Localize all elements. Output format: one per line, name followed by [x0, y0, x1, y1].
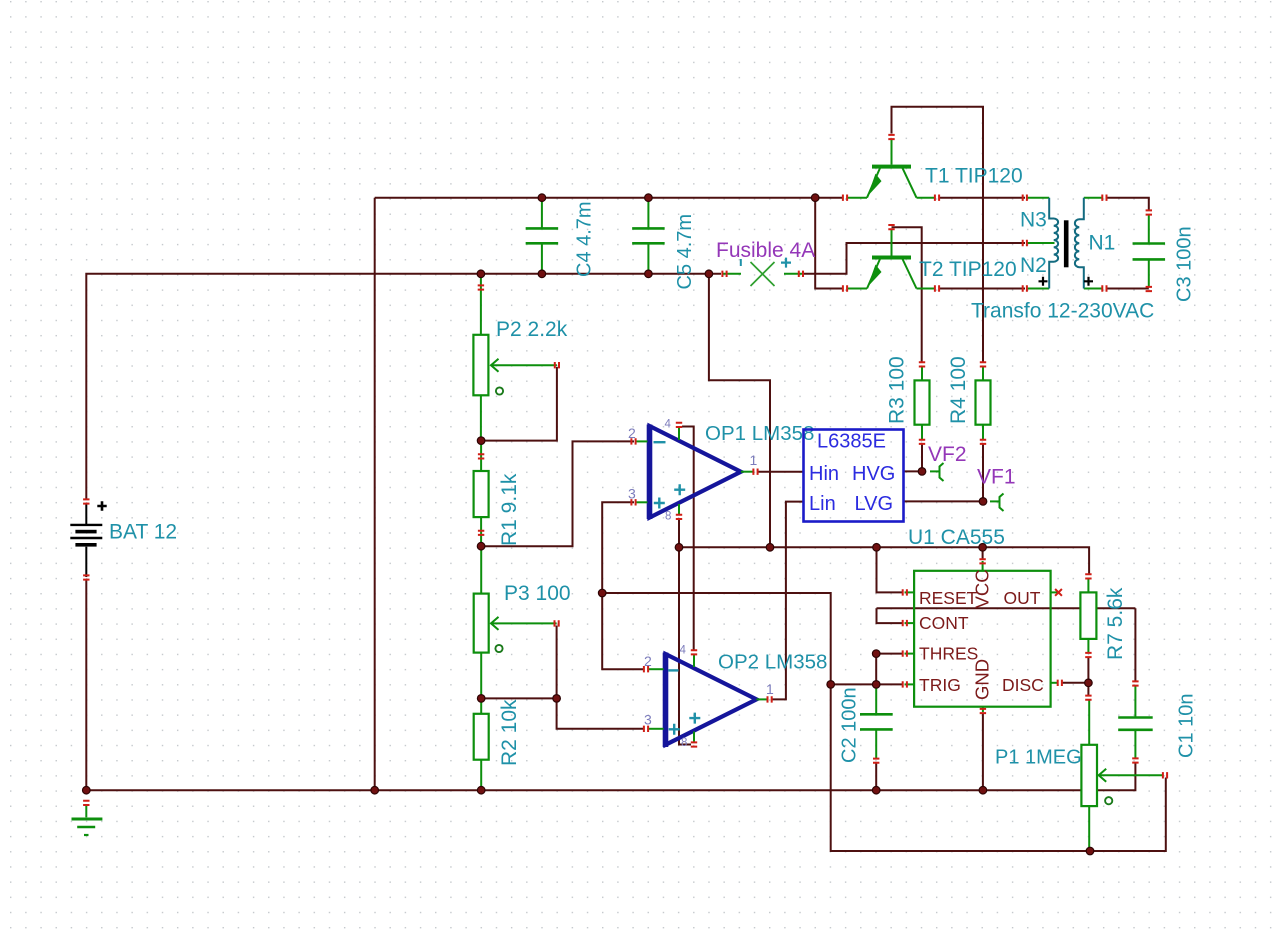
capacitor C4 [541, 199, 543, 228]
wire [557, 698, 643, 728]
svg-text:L6385E: L6385E [817, 431, 886, 453]
wire [86, 274, 721, 499]
wire [815, 198, 843, 289]
svg-text:P2 2.2k: P2 2.2k [496, 318, 568, 341]
wire [375, 197, 843, 199]
pin RESET [903, 589, 907, 595]
capacitor C3 [1148, 215, 1150, 244]
svg-text:OP1 LM358: OP1 LM358 [705, 422, 814, 445]
svg-text:1: 1 [750, 452, 758, 468]
wire [556, 626, 558, 699]
wire [602, 593, 831, 684]
pin N3 top [1023, 195, 1027, 201]
wire [982, 713, 984, 790]
node DISC/R7/P1 [1085, 679, 1093, 687]
svg-text:3: 3 [644, 712, 652, 728]
wire [892, 107, 984, 362]
pin OP2 2 [644, 666, 648, 672]
transformer Transfo 12-230VAC [1027, 197, 1049, 199]
wire [85, 580, 87, 790]
pin N1 bottom [1102, 285, 1106, 291]
pin R1 bottom [478, 531, 484, 535]
wire [772, 502, 804, 700]
svg-text:DISC: DISC [1002, 675, 1044, 695]
pin R1 top [478, 454, 484, 458]
transformer core [1064, 220, 1069, 267]
svg-text:CONT: CONT [919, 613, 969, 633]
wire [481, 441, 634, 546]
svg-text:R7 5.6k: R7 5.6k [1104, 587, 1127, 660]
node U1 VCC [979, 544, 987, 552]
pin T2 emitter [843, 285, 847, 291]
pin battery + [83, 499, 89, 503]
svg-text:LVG: LVG [855, 493, 894, 515]
node VF1 [979, 498, 987, 506]
svg-text:R3 100: R3 100 [886, 356, 909, 424]
svg-text:C1 10n: C1 10n [1176, 694, 1198, 759]
pin fuse left [722, 271, 726, 277]
pin T1 base [888, 135, 894, 139]
pin R7 top [1085, 574, 1091, 578]
wire [804, 243, 1025, 274]
svg-text:4: 4 [665, 419, 672, 431]
capacitor C1 [1134, 686, 1136, 718]
wire [877, 608, 903, 623]
svg-text:U1 CA555: U1 CA555 [908, 526, 1005, 549]
wire [892, 227, 922, 362]
wire [831, 684, 1166, 851]
pin N3/N2 tap [1023, 240, 1027, 246]
pin OP2 8 [691, 742, 697, 746]
op-amp OP2 markers [668, 669, 678, 671]
svg-text:N2: N2 [1020, 254, 1047, 277]
pin OP1 3 [631, 499, 635, 505]
wire [679, 519, 691, 745]
node VF2 [918, 468, 926, 476]
wire [1061, 682, 1088, 684]
node C4 bottom [538, 270, 546, 278]
pin OP2 3 [644, 726, 648, 732]
potentiometer P1 [1088, 701, 1090, 745]
wire [1087, 657, 1089, 683]
potentiometer P2 [480, 275, 482, 335]
wire [481, 367, 557, 441]
pin C3 top [1146, 210, 1152, 214]
wire [982, 444, 984, 501]
svg-text:4: 4 [680, 645, 687, 657]
svg-text:VF2: VF2 [928, 443, 967, 466]
wire [682, 427, 694, 651]
wire [86, 762, 1135, 790]
svg-text:R1 9.1k: R1 9.1k [498, 473, 521, 546]
wire [602, 502, 634, 593]
svg-text:T1 TIP120: T1 TIP120 [925, 165, 1023, 188]
svg-text:P3 100: P3 100 [504, 582, 571, 605]
wire [904, 500, 984, 502]
svg-text:C4 4.7m: C4 4.7m [574, 201, 596, 277]
pin R4 top [980, 362, 986, 366]
ground [85, 805, 87, 817]
net flag VF1 [990, 500, 999, 502]
wire [939, 197, 1025, 199]
wire [877, 607, 1136, 609]
wire [877, 547, 903, 592]
pin T1 collector [935, 195, 939, 201]
wire [374, 198, 376, 791]
node C2 ground [872, 786, 880, 794]
pin R4 bottom [980, 440, 986, 444]
wire [982, 547, 984, 559]
wire [758, 471, 804, 473]
node riser ground [371, 786, 379, 794]
capacitor C5 [647, 199, 649, 228]
svg-text:Transfo 12-230VAC: Transfo 12-230VAC [971, 300, 1154, 323]
pin TRIG [903, 681, 907, 687]
wire [679, 547, 1089, 574]
node C5 top [645, 194, 653, 202]
pin T2 collector [935, 285, 939, 291]
node P1 bottom [1086, 847, 1094, 855]
pin OP1 4 [676, 423, 682, 427]
svg-text:OP2 LM358: OP2 LM358 [718, 651, 827, 674]
pin N1 top [1102, 195, 1106, 201]
node C5 bottom [645, 270, 653, 278]
pin OP1 2 [631, 438, 635, 444]
pin DISC [1058, 680, 1062, 686]
svg-text:N1: N1 [1089, 232, 1116, 255]
pin OP2 4 [691, 650, 697, 654]
wire [939, 288, 1025, 290]
fuse Fusible 4A [723, 273, 741, 275]
resistor R2 [480, 698, 482, 713]
pin R3 bottom [919, 440, 925, 444]
pin P2 top [478, 285, 484, 289]
node V+ feed [766, 544, 774, 552]
wire [831, 683, 902, 685]
transistor T1 TIP120 [891, 140, 893, 165]
node R2 ground [477, 786, 485, 794]
pin U1 VCC [979, 559, 985, 563]
node battery ground [83, 786, 91, 794]
pin OP1 1 [753, 469, 757, 475]
svg-text:P1 1MEG: P1 1MEG [995, 747, 1082, 769]
pin THRES [903, 650, 907, 656]
pin fuse right [799, 271, 803, 277]
node P2 top [477, 270, 485, 278]
fuse polarity marks [781, 258, 791, 268]
op-amp OP2 LM358 [666, 654, 757, 745]
wire [709, 274, 770, 548]
wire [1107, 288, 1149, 290]
svg-text:Hin: Hin [809, 463, 839, 485]
svg-text:BAT 12: BAT 12 [109, 521, 177, 544]
wire [481, 697, 556, 699]
svg-text:C2 100n: C2 100n [839, 687, 861, 763]
svg-text:THRES: THRES [919, 644, 978, 664]
svg-text:TRIG: TRIG [919, 675, 961, 695]
svg-text:N3: N3 [1020, 209, 1047, 232]
pin R7 bottom [1085, 653, 1091, 657]
transformer polarity + [1039, 277, 1048, 286]
pin P1 top [1085, 696, 1091, 700]
wire [876, 654, 902, 685]
pin P3 wiper [555, 620, 559, 626]
pin OP1 8 [676, 515, 682, 519]
wire [921, 444, 923, 471]
wire [602, 593, 643, 669]
node +12V branch [705, 270, 713, 278]
pin T2 base [888, 225, 894, 229]
svg-text:RESET: RESET [919, 588, 978, 608]
pin P1 wiper [1163, 772, 1167, 778]
pin ground [83, 801, 89, 805]
pin C3 bottom [1146, 287, 1152, 291]
node emitter rail [811, 194, 819, 202]
U1 pin stubs [905, 591, 915, 593]
op-amp OP1 LM358 [650, 426, 741, 518]
timer U1 CA555 box [914, 571, 1051, 707]
node R1/P3 [477, 542, 485, 550]
wire [1107, 198, 1149, 210]
wire [1134, 608, 1136, 681]
pin P2 wiper [555, 362, 559, 368]
battery BAT 12 [85, 503, 87, 525]
wire [875, 763, 877, 791]
gate driver IC L6385E [804, 430, 904, 522]
pin C2 bottom [873, 759, 879, 763]
svg-text:1: 1 [766, 681, 774, 697]
node U1 ground [979, 786, 987, 794]
pin T1 emitter [843, 195, 847, 201]
pin R3 top [919, 362, 925, 366]
wire [904, 470, 923, 472]
svg-text:HVG: HVG [852, 463, 895, 485]
node TRIG/C2 [872, 681, 880, 689]
svg-text:GND: GND [972, 659, 993, 700]
pin N2 bottom [1023, 285, 1027, 291]
node OP1 pin8 [675, 544, 683, 552]
pin OUT unconnected [1055, 589, 1062, 596]
node P3 wiper [553, 695, 561, 703]
svg-text:C5 4.7m: C5 4.7m [674, 214, 696, 290]
svg-text:VF1: VF1 [977, 466, 1016, 489]
node TRIG west [827, 681, 835, 689]
svg-text:Lin: Lin [809, 493, 836, 515]
op-amp OP1 markers [654, 441, 666, 443]
node P2/R1 [477, 437, 485, 445]
svg-text:R4 100: R4 100 [947, 356, 970, 424]
node RESET riser [873, 544, 881, 552]
node C4 top [538, 194, 546, 202]
capacitor C2 [875, 686, 877, 714]
pin OP2 1 [768, 696, 772, 702]
node THRES/C2 [872, 650, 880, 658]
svg-text:8: 8 [665, 511, 671, 523]
svg-text:C3 100n: C3 100n [1174, 226, 1196, 302]
pin battery - [83, 575, 89, 579]
svg-text:R2 10k: R2 10k [498, 699, 521, 766]
potentiometer P3 [480, 547, 482, 593]
pin CONT [903, 620, 907, 626]
resistor R7 [1087, 579, 1089, 592]
node OP1+/OP2- [598, 589, 606, 597]
pin C1 top [1132, 681, 1138, 685]
net flag VF2 [930, 470, 939, 472]
resistor R3 [921, 366, 923, 380]
pin C1 bottom [1132, 758, 1138, 762]
svg-text:OUT: OUT [1004, 588, 1041, 608]
svg-text:8: 8 [681, 737, 687, 749]
svg-text:T2 TIP120: T2 TIP120 [919, 258, 1017, 281]
svg-text:Fusible 4A: Fusible 4A [716, 239, 815, 262]
wire [1087, 683, 1089, 695]
resistor R4 [982, 366, 984, 380]
transistor T2 TIP120 [891, 229, 893, 256]
resistor R1 [480, 442, 482, 471]
node P3/R2 [477, 695, 485, 703]
pin U1 GND [980, 709, 986, 713]
svg-text:VCC: VCC [972, 569, 993, 608]
